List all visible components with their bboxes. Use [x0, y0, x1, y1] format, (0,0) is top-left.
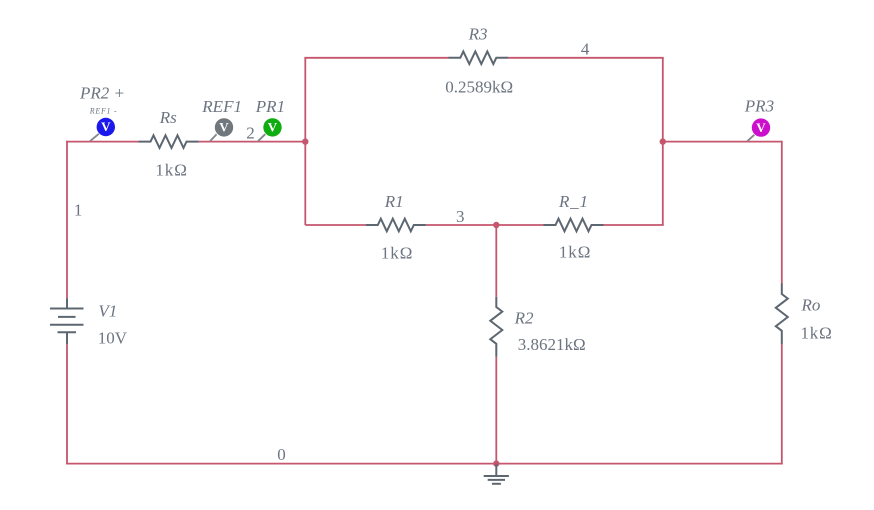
- value 1kΩ of R1: [381, 244, 413, 263]
- svg-text:4: 4: [581, 40, 590, 59]
- wire: left vertical net 0 (below V1): [66, 344, 68, 464]
- wire: right column vertical above Ro: [781, 141, 783, 284]
- wire: bottom net 0 horizontal: [66, 463, 783, 465]
- node 0: [277, 445, 286, 464]
- wire: R2 branch lower to ground net: [495, 357, 497, 464]
- svg-text:3.8621kΩ: 3.8621kΩ: [518, 335, 586, 354]
- value 1kΩ of R_1: [559, 243, 591, 262]
- svg-text:PR2 +: PR2 +: [79, 83, 125, 102]
- svg-text:0: 0: [277, 445, 286, 464]
- resistor R3: [448, 52, 508, 65]
- svg-text:0.2589kΩ: 0.2589kΩ: [445, 78, 513, 97]
- wire: R2 branch upper: [495, 224, 497, 297]
- wire: middle branch left segment to R1: [305, 224, 366, 226]
- svg-text:R2: R2: [514, 309, 534, 328]
- label PR3: [744, 97, 774, 116]
- svg-text:V: V: [756, 120, 766, 135]
- voltage source V1: [50, 298, 84, 344]
- wire: Rs to node 2 junction: [198, 141, 305, 143]
- label V1: [98, 302, 117, 321]
- svg-text:REF1: REF1: [201, 97, 242, 116]
- svg-text:10V: 10V: [98, 329, 128, 348]
- svg-text:V1: V1: [98, 302, 117, 321]
- resistor Rs: [139, 135, 199, 148]
- svg-text:2: 2: [246, 124, 255, 143]
- svg-text:1kΩ: 1kΩ: [381, 244, 413, 263]
- svg-text:1kΩ: 1kΩ: [155, 161, 187, 180]
- label REF1 - (subscript): [89, 107, 118, 116]
- wire: node 4 junction to right column: [663, 141, 782, 143]
- label Ro: [801, 296, 821, 315]
- resistor R2: [490, 297, 502, 357]
- svg-text:REF1 -: REF1 -: [89, 107, 118, 116]
- junction: node 3 at R2 top: [493, 222, 499, 228]
- junction: node 2 at left branch: [302, 138, 308, 144]
- value 1kΩ of Rs: [155, 161, 187, 180]
- svg-text:PR3: PR3: [744, 97, 774, 116]
- wire: middle branch right segment from R_1: [603, 224, 663, 226]
- wire: left branch vertical node 2: [304, 58, 306, 225]
- svg-text:Rs: Rs: [159, 108, 177, 127]
- node 1: [74, 201, 83, 220]
- probe PR3 (magenta voltage probe): [747, 118, 770, 141]
- probe PR2 (blue voltage probe): [90, 118, 115, 141]
- wire: top-left horizontal from V1 to Rs: [66, 141, 139, 143]
- svg-text:Ro: Ro: [801, 296, 821, 315]
- resistor Ro: [776, 283, 788, 344]
- svg-text:1kΩ: 1kΩ: [801, 323, 833, 342]
- value 0.2589kΩ of R3: [445, 78, 513, 97]
- resistor R1: [366, 219, 426, 232]
- label Rs: [159, 108, 177, 127]
- wire: right column vertical below Ro: [781, 344, 783, 465]
- svg-text:1: 1: [74, 201, 83, 220]
- node 4: [581, 40, 590, 59]
- label R2: [514, 309, 534, 328]
- svg-text:R_1: R_1: [558, 192, 589, 211]
- resistor R_1: [544, 219, 604, 232]
- svg-text:PR1: PR1: [255, 97, 285, 116]
- value 10V of V1: [98, 329, 128, 348]
- wire: right branch vertical node 4: [662, 58, 664, 225]
- label PR2 +: [79, 83, 125, 102]
- svg-text:R3: R3: [468, 25, 488, 44]
- junction: ground node 0: [493, 460, 499, 466]
- probe PR1 (green voltage probe): [258, 118, 282, 141]
- ground: [484, 464, 509, 484]
- value 1kΩ of Ro: [801, 323, 833, 342]
- label R3: [468, 25, 488, 44]
- svg-text:V: V: [101, 119, 111, 134]
- value 3.8621kΩ of R2: [518, 335, 586, 354]
- label PR1: [255, 97, 285, 116]
- node 2: [246, 124, 255, 143]
- wire: left vertical net 1 (top of V1): [66, 141, 68, 299]
- label R1: [384, 192, 404, 211]
- svg-text:V: V: [219, 120, 229, 135]
- wire: middle branch node 3 segment between R1 and R_1: [426, 224, 544, 226]
- probe REF1 (gray voltage probe): [210, 118, 233, 141]
- wire: top branch right segment from R3 to node 4: [508, 57, 664, 59]
- svg-text:V: V: [268, 120, 278, 135]
- label REF1: [201, 97, 242, 116]
- svg-text:R1: R1: [384, 192, 404, 211]
- junction: node 4 at right branch: [660, 138, 666, 144]
- wire: top branch left segment to R3: [304, 57, 448, 59]
- svg-text:1kΩ: 1kΩ: [559, 243, 591, 262]
- node 3: [456, 207, 465, 226]
- label R_1: [558, 192, 589, 211]
- svg-text:3: 3: [456, 207, 465, 226]
